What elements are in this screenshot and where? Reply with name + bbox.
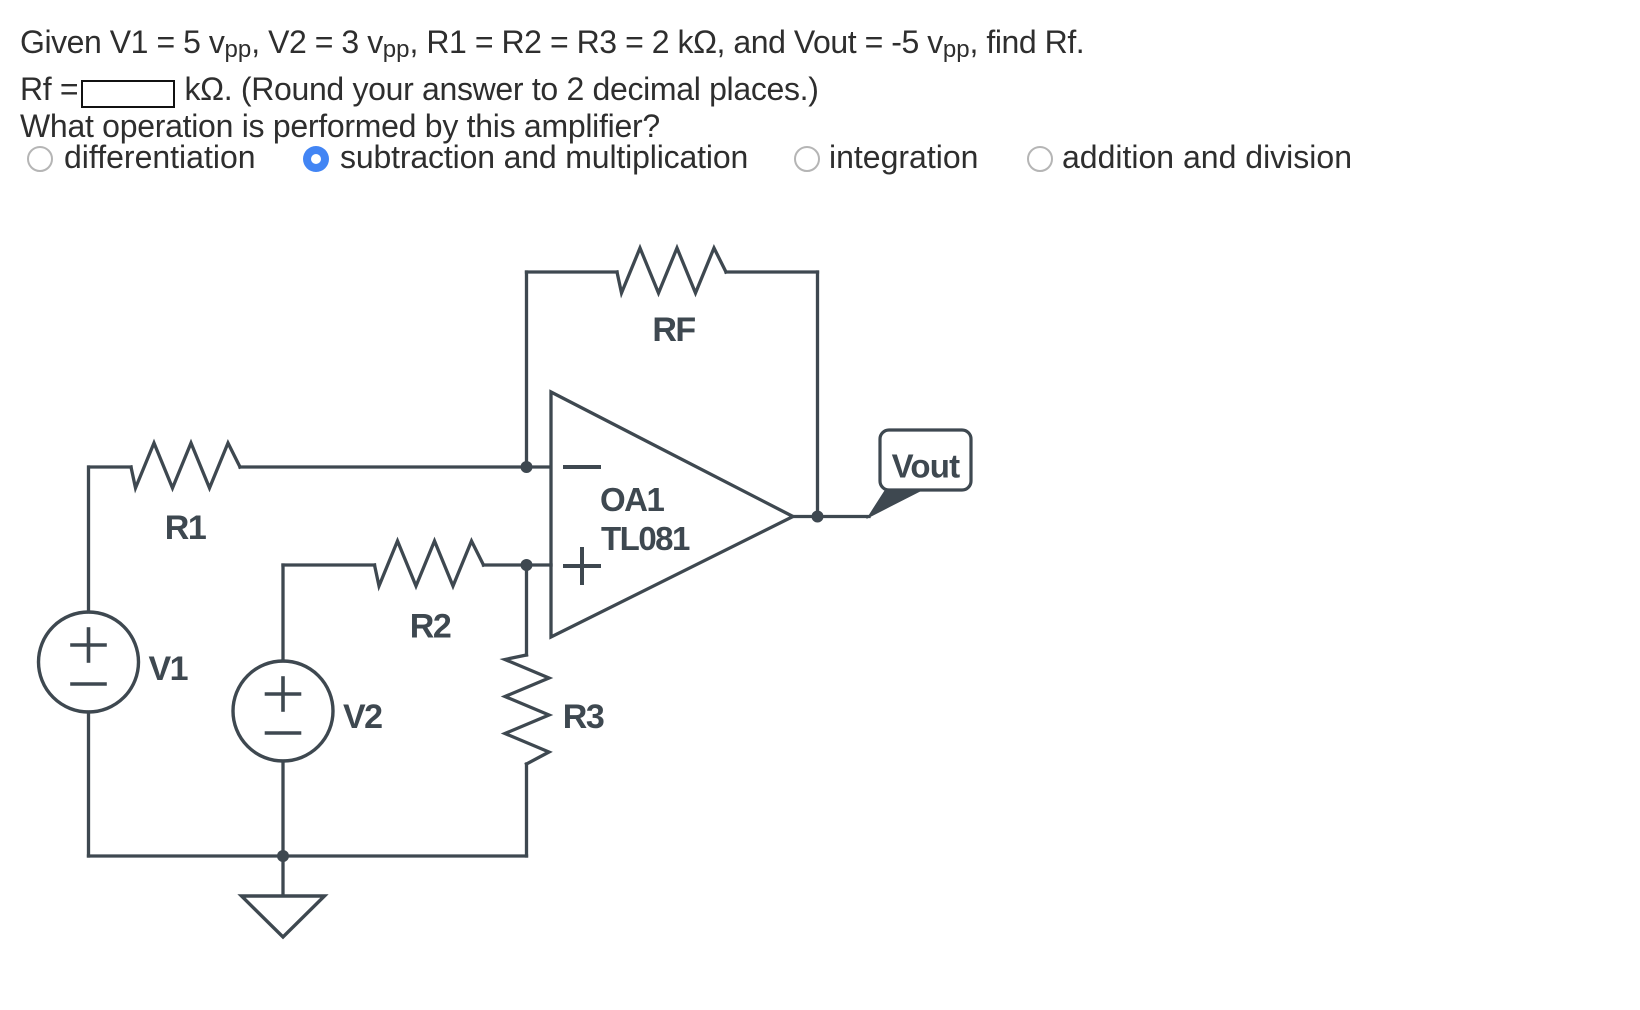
wire: V2 bottom to ground rail [281, 761, 284, 856]
wire: output from apex [793, 515, 869, 518]
resistor R3 (vertical) [505, 655, 549, 764]
node: non-inverting input junction [521, 559, 533, 571]
problem text line 3 [20, 108, 660, 145]
wire: node down to R3 [525, 565, 528, 655]
radio integration [794, 146, 820, 172]
voltage source V1 [39, 612, 139, 712]
wire: R1 to inverting node [240, 465, 551, 468]
svg-text:R2: R2 [410, 608, 451, 646]
problem text line 2 with answer box [20, 71, 819, 108]
problem text line 1 [20, 24, 1084, 61]
wire: R2 to non-inverting node [484, 563, 552, 566]
wire: RF top left segment [527, 270, 618, 273]
svg-text:TL081: TL081 [601, 520, 690, 557]
op-amp OA1 triangle [551, 392, 793, 637]
op-amp minus symbol [565, 465, 599, 469]
op-amp plus symbol [565, 564, 599, 568]
wire: V1 bottom to ground rail [87, 712, 90, 856]
svg-text:RF: RF [652, 311, 695, 349]
svg-text:Vout: Vout [892, 448, 960, 485]
wire: feedback right vertical [816, 272, 819, 517]
radio addition and division [1027, 146, 1053, 172]
resistor RF [617, 248, 726, 293]
svg-text:V2: V2 [343, 698, 382, 736]
wire: bottom ground rail [89, 854, 527, 857]
Vout callout tail [869, 490, 921, 517]
svg-text:R3: R3 [563, 698, 604, 736]
svg-text:R1: R1 [165, 509, 206, 547]
wire: V2 top to R2 [281, 565, 284, 661]
wire: feedback left vertical [525, 272, 528, 467]
wire: R2 input horizontal from V2 [283, 563, 375, 566]
node: inverting input junction [521, 461, 533, 473]
resistor R2 [375, 541, 484, 586]
resistor R1 [131, 443, 240, 488]
node: output junction [812, 511, 824, 523]
voltage source V2 [233, 661, 333, 761]
radio differentiation [27, 146, 53, 172]
wire: RF top right segment [726, 270, 818, 273]
ground symbol [242, 896, 325, 937]
svg-text:OA1: OA1 [600, 481, 665, 518]
radio subtraction and multiplication (selected) [303, 146, 329, 172]
Vout callout box [880, 430, 971, 490]
svg-text:V1: V1 [149, 650, 188, 688]
wire: R1 input horizontal (inverting input net) [89, 465, 131, 468]
wire: V1 top to R1 [87, 467, 90, 612]
wire: ground stem [281, 856, 284, 896]
node: ground junction [277, 850, 289, 862]
wire: R3 bottom to ground rail [525, 764, 528, 856]
